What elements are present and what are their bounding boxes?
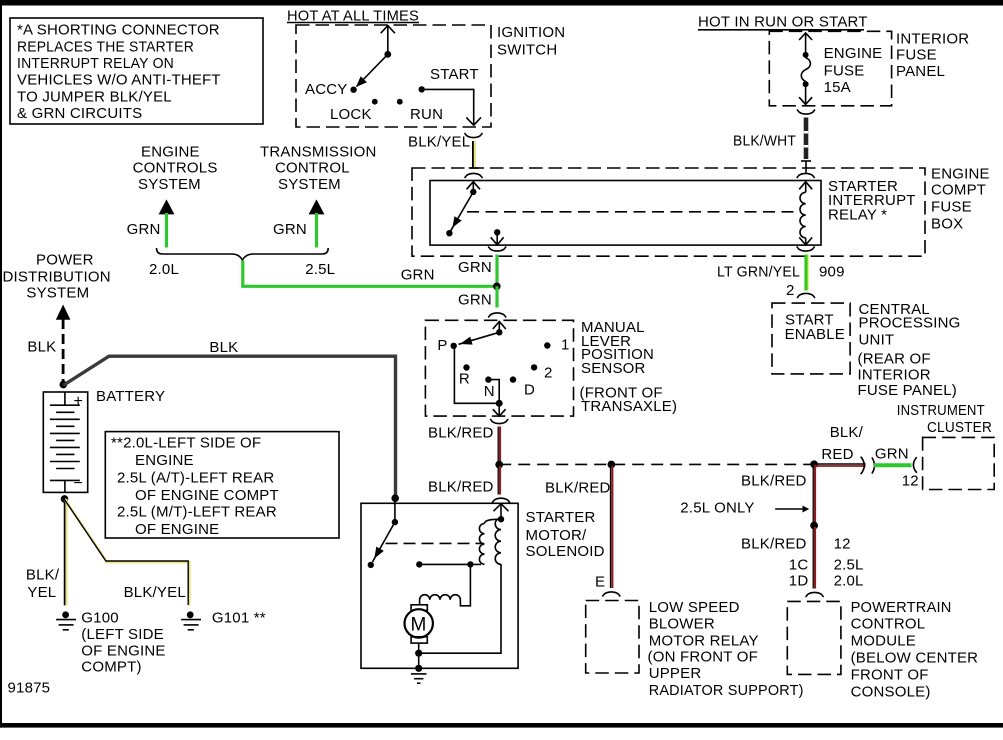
interior fuse panel box xyxy=(769,31,891,106)
svg-text:1: 1 xyxy=(561,337,570,354)
svg-text:INSTRUMENT: INSTRUMENT xyxy=(897,402,985,419)
svg-text:STARTER: STARTER xyxy=(526,509,596,526)
svg-text:GRN: GRN xyxy=(875,446,909,463)
svg-text:RELAY *: RELAY * xyxy=(828,207,887,224)
wire BLK/RED junction to starter xyxy=(428,466,510,503)
low speed blower motor relay box xyxy=(586,599,804,699)
wire BLK/WHT xyxy=(733,118,811,173)
instrument cluster box xyxy=(897,402,994,490)
svg-text:OF ENGINE COMPT: OF ENGINE COMPT xyxy=(135,487,279,504)
svg-text:1C: 1C xyxy=(789,557,809,574)
svg-text:SWITCH: SWITCH xyxy=(497,41,557,58)
svg-text:INTERIOR: INTERIOR xyxy=(858,366,931,383)
svg-text:SYSTEM: SYSTEM xyxy=(278,176,341,193)
powertrain control module box xyxy=(787,599,978,701)
svg-text:(BELOW CENTER: (BELOW CENTER xyxy=(851,650,979,667)
svg-text:909: 909 xyxy=(819,264,845,281)
svg-text:& GRN CIRCUITS: & GRN CIRCUITS xyxy=(17,105,142,122)
svg-text:DISTRIBUTION: DISTRIBUTION xyxy=(3,269,111,286)
pin labels PCM xyxy=(789,536,864,590)
svg-text:OF ENGINE: OF ENGINE xyxy=(81,642,165,659)
svg-text:2.5L (M/T)-LEFT REAR: 2.5L (M/T)-LEFT REAR xyxy=(117,503,277,520)
svg-text:2.0L: 2.0L xyxy=(834,572,864,589)
connector below MLPS xyxy=(490,419,508,424)
ground starter xyxy=(411,674,427,683)
wire BLK/RED junction to splice xyxy=(814,424,866,466)
svg-text:BLK/RED: BLK/RED xyxy=(741,473,807,490)
node GRN junction xyxy=(493,283,501,291)
svg-text:G101 **: G101 ** xyxy=(212,609,266,626)
svg-text:BATTERY: BATTERY xyxy=(96,388,165,405)
svg-text:−: − xyxy=(74,475,84,492)
power distribution system xyxy=(3,252,111,383)
svg-text:BLK: BLK xyxy=(27,338,56,355)
wire GRN bus xyxy=(241,259,497,309)
svg-text:COMPT: COMPT xyxy=(931,182,986,199)
svg-text:RUN: RUN xyxy=(410,106,443,123)
svg-text:BLK: BLK xyxy=(209,339,238,356)
svg-text:PANEL: PANEL xyxy=(896,63,945,80)
top border bar xyxy=(0,0,1003,6)
svg-text:ENABLE: ENABLE xyxy=(785,326,845,343)
svg-text:BLK/YEL: BLK/YEL xyxy=(408,133,470,150)
left border segment xyxy=(0,0,2,728)
svg-text:2.5L: 2.5L xyxy=(834,557,864,574)
connector below relay coil xyxy=(797,247,815,252)
svg-text:LOW SPEED: LOW SPEED xyxy=(649,599,740,616)
svg-text:POWERTRAIN: POWERTRAIN xyxy=(851,599,952,616)
wire BLK/YEL battery to G101 xyxy=(63,498,189,606)
wire BLK/YEL ignition to relay xyxy=(408,133,478,168)
brace 2.0L / 2.5L xyxy=(149,248,335,278)
svg-text:D: D xyxy=(524,382,535,399)
wire BLK/RED junction to blower relay xyxy=(545,466,620,597)
svg-text:MOTOR RELAY: MOTOR RELAY xyxy=(649,633,759,650)
relay coil (right) xyxy=(797,173,815,245)
svg-text:FUSE PANEL): FUSE PANEL) xyxy=(858,382,957,399)
svg-text:15A: 15A xyxy=(824,79,851,96)
svg-text:VEHICLES W/O ANTI-THEFT: VEHICLES W/O ANTI-THEFT xyxy=(17,72,221,89)
starter interrupt relay box xyxy=(430,181,821,246)
fuse ENGINE FUSE 15A xyxy=(799,33,882,105)
svg-text:TO JUMPER BLK/YEL: TO JUMPER BLK/YEL xyxy=(17,88,172,105)
svg-text:+: + xyxy=(74,393,84,410)
MLPS internals xyxy=(437,322,569,417)
svg-text:UPPER: UPPER xyxy=(649,665,702,682)
starter field coil xyxy=(420,564,471,605)
node battery positive xyxy=(60,381,68,389)
svg-text:**2.0L-LEFT SIDE OF: **2.0L-LEFT SIDE OF xyxy=(111,435,261,452)
svg-text:2.5L (A/T)-LEFT REAR: 2.5L (A/T)-LEFT REAR xyxy=(117,470,274,487)
node BLK/RED junction 3 xyxy=(810,460,818,468)
central processing unit box xyxy=(772,301,961,399)
svg-text:N: N xyxy=(484,383,495,400)
ground G100 xyxy=(56,609,166,675)
svg-text:*A SHORTING CONNECTOR: *A SHORTING CONNECTOR xyxy=(17,22,220,39)
wire GRN relay to junction xyxy=(495,255,498,286)
ignition switch box xyxy=(296,25,491,127)
svg-text:TRANSAXLE): TRANSAXLE) xyxy=(581,398,677,415)
note box 1 xyxy=(10,18,263,124)
note box 2 xyxy=(105,432,339,538)
battery xyxy=(43,388,165,492)
svg-text:CONTROL: CONTROL xyxy=(275,160,350,177)
transmission control system xyxy=(260,143,377,247)
svg-text:COMPT): COMPT) xyxy=(81,659,141,676)
svg-text:BLK/RED: BLK/RED xyxy=(428,425,494,442)
node starter feed xyxy=(391,494,399,502)
svg-text:SENSOR: SENSOR xyxy=(581,360,646,377)
node HOT IN RUN OR START xyxy=(698,14,868,31)
svg-text:(LEFT SIDE: (LEFT SIDE xyxy=(81,626,164,643)
svg-text:INTERIOR: INTERIOR xyxy=(896,30,969,47)
svg-text:FUSE: FUSE xyxy=(931,199,972,216)
svg-text:FRONT OF: FRONT OF xyxy=(851,667,929,684)
svg-text:CONSOLE): CONSOLE) xyxy=(851,684,931,701)
relay switch contact (left) xyxy=(446,173,800,244)
svg-text:YEL: YEL xyxy=(27,584,56,601)
wire BLK/YEL battery to G100 xyxy=(26,499,66,605)
svg-text:GRN: GRN xyxy=(458,259,492,276)
svg-text:ENGINE: ENGINE xyxy=(141,143,200,160)
svg-text:P: P xyxy=(437,337,447,354)
svg-text:CONTROL: CONTROL xyxy=(851,616,926,633)
svg-text:GRN: GRN xyxy=(273,221,307,238)
svg-text:12: 12 xyxy=(834,536,851,553)
svg-text:SYSTEM: SYSTEM xyxy=(138,176,201,193)
svg-text:1D: 1D xyxy=(789,572,809,589)
svg-text:TRANSMISSION: TRANSMISSION xyxy=(260,143,377,160)
node BLK/RED junction 2 xyxy=(608,461,616,469)
connector at ignition output xyxy=(465,133,483,138)
svg-text:LT GRN/YEL: LT GRN/YEL xyxy=(717,264,800,281)
svg-text:BLK/: BLK/ xyxy=(830,424,864,441)
svg-text:PROCESSING: PROCESSING xyxy=(859,314,961,331)
svg-text:LOCK: LOCK xyxy=(330,106,372,123)
svg-text:R: R xyxy=(459,371,470,388)
connector below relay switch xyxy=(488,247,506,252)
svg-text:BLK/RED: BLK/RED xyxy=(545,480,611,497)
ignition switch internals xyxy=(305,26,481,126)
svg-text:91875: 91875 xyxy=(8,680,51,697)
svg-text:OF ENGINE: OF ENGINE xyxy=(135,521,219,538)
svg-text:INTERRUPT RELAY ON: INTERRUPT RELAY ON xyxy=(17,55,174,72)
svg-text:2: 2 xyxy=(786,282,795,299)
ground G101 xyxy=(181,609,266,629)
wire GRN splice to cluster xyxy=(874,446,919,490)
svg-text:GRN: GRN xyxy=(127,221,161,238)
svg-text:RED: RED xyxy=(821,446,853,463)
engine controls system xyxy=(127,143,218,247)
svg-text:G100: G100 xyxy=(81,609,119,626)
svg-text:ACCY: ACCY xyxy=(305,81,347,98)
svg-text:GRN: GRN xyxy=(401,266,435,283)
svg-text:BLK/YEL: BLK/YEL xyxy=(124,584,186,601)
svg-text:ENGINE: ENGINE xyxy=(931,166,990,183)
svg-text:BLK/RED: BLK/RED xyxy=(428,479,494,496)
starter motor/solenoid box xyxy=(361,503,518,668)
svg-text:CONTROLS: CONTROLS xyxy=(133,160,218,177)
svg-text:BLK/: BLK/ xyxy=(26,566,60,583)
svg-text:(ON FRONT OF: (ON FRONT OF xyxy=(648,649,758,666)
svg-text:12: 12 xyxy=(902,473,919,490)
svg-text:2.5L ONLY: 2.5L ONLY xyxy=(680,499,754,516)
dashed link wire xyxy=(499,463,814,465)
svg-text:SOLENOID: SOLENOID xyxy=(526,543,605,560)
node HOT AT ALL TIMES xyxy=(287,8,419,25)
svg-text:SYSTEM: SYSTEM xyxy=(26,285,89,302)
svg-text:(REAR OF: (REAR OF xyxy=(858,351,931,368)
node battery negative xyxy=(61,495,69,503)
connector below fuse panel xyxy=(797,110,815,115)
wire BLK battery to starter xyxy=(63,339,395,498)
wire BLK/RED MLPS to junction xyxy=(428,425,500,463)
svg-text:2: 2 xyxy=(544,365,553,382)
starter motor M xyxy=(405,605,433,672)
svg-text:START: START xyxy=(430,66,479,83)
solenoid windings xyxy=(419,504,509,654)
svg-text:MOTOR/: MOTOR/ xyxy=(526,527,588,544)
svg-text:CLUSTER: CLUSTER xyxy=(927,419,992,436)
svg-text:POWER: POWER xyxy=(36,252,94,269)
engine compt fuse box xyxy=(412,168,925,256)
wire GRN junction to MLPS xyxy=(495,286,498,307)
svg-text:HOT IN RUN OR START: HOT IN RUN OR START xyxy=(698,14,868,31)
svg-text:GRN: GRN xyxy=(458,292,492,309)
wire LT GRN/YEL relay to CPU xyxy=(717,255,845,300)
svg-text:BLK/RED: BLK/RED xyxy=(741,536,807,553)
svg-text:IGNITION: IGNITION xyxy=(497,24,565,41)
svg-text:BLOWER: BLOWER xyxy=(649,616,715,633)
svg-text:2.0L: 2.0L xyxy=(149,261,179,278)
wire BLK/RED junction to PCM xyxy=(741,466,824,597)
svg-text:BOX: BOX xyxy=(931,216,963,233)
splice connectors xyxy=(861,457,865,475)
2.5L ONLY callout xyxy=(680,499,809,516)
svg-text:FUSE: FUSE xyxy=(824,62,865,79)
starter solenoid contacts xyxy=(368,498,484,568)
bottom border bar xyxy=(0,723,1003,728)
svg-text:M: M xyxy=(411,615,427,636)
manual lever position sensor box xyxy=(425,320,573,416)
svg-text:ENGINE: ENGINE xyxy=(824,45,883,62)
svg-text:ENGINE: ENGINE xyxy=(135,452,194,469)
svg-text:UNIT: UNIT xyxy=(859,331,895,348)
svg-text:2.5L: 2.5L xyxy=(305,261,335,278)
svg-text:FUSE: FUSE xyxy=(896,46,937,63)
svg-text:BLK/WHT: BLK/WHT xyxy=(733,133,796,150)
svg-text:RADIATOR SUPPORT): RADIATOR SUPPORT) xyxy=(649,682,804,699)
node BLK/RED junction 1 xyxy=(495,461,503,469)
svg-text:MODULE: MODULE xyxy=(851,633,916,650)
svg-text:E: E xyxy=(595,573,605,590)
svg-text:REPLACES THE STARTER: REPLACES THE STARTER xyxy=(17,39,194,56)
